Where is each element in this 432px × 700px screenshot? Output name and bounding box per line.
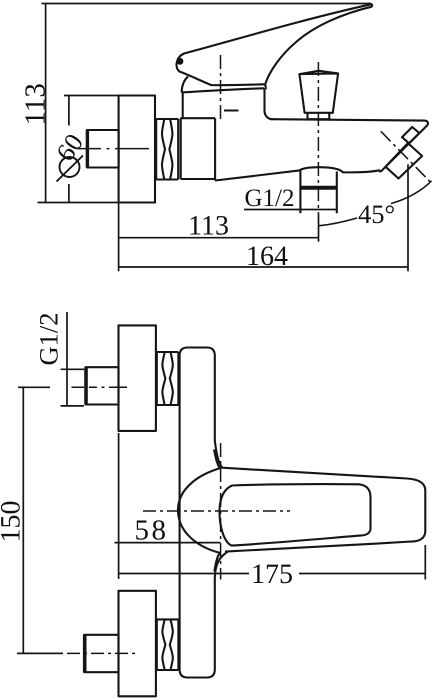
dimension line 58 [115, 542, 221, 544]
extension line: fitting centerline down [318, 213, 320, 241]
spout bottom edge [215, 167, 380, 180]
handle pivot dot [177, 58, 184, 65]
extension line: wall plane down (top view) [118, 203, 120, 272]
fillet: bar to blade top [215, 441, 222, 468]
centerline nipple1 (dash-dot) [72, 386, 128, 388]
crosshair horizontal (blade center, dash-dot) [143, 510, 290, 512]
wall nipple (top view) [87, 130, 119, 168]
wall flange 2 (bottom view) [119, 591, 156, 697]
handle blade outer outline (bottom view) [220, 468, 425, 552]
svg-text:60: 60 [50, 129, 89, 167]
dimension text Ø60 (rotated diagonal) [57, 156, 84, 182]
svg-text:G1/2: G1/2 [34, 313, 64, 366]
centerline nipple (top view) [77, 148, 149, 150]
dimension line 164 [119, 266, 408, 268]
extension tick: 150 top (nipple1 centerline) [18, 386, 50, 388]
wall flange 1 (bottom view) [119, 325, 156, 431]
handle skirt left curve [182, 77, 188, 93]
aerator collar (rotated) [402, 127, 419, 143]
svg-text:113: 113 [188, 211, 229, 242]
extension line: wall plane (bottom view) [118, 433, 120, 579]
dimension line 175 [119, 573, 426, 575]
wall nipple 2 (bottom view) [84, 635, 118, 672]
wall flange Ø60 escutcheon (top view) [119, 96, 155, 203]
hex nut 2 (bottom view) [157, 619, 179, 670]
extension line: flange bottom leftward [38, 202, 157, 204]
centerline nipple2 (dash-dot) [17, 652, 63, 654]
45 degree arc leader right segment [391, 181, 432, 204]
dimension text 175 (white background) [249, 563, 299, 585]
diverter knob (top view) [299, 71, 338, 113]
spout top edge [271, 119, 428, 125]
dimension line 113 vertical (left) [45, 4, 47, 203]
extension line: blade right end down [424, 545, 426, 580]
wall nipple 1 (bottom view) [86, 367, 119, 404]
knob / outlet centerline (vertical dash-dot) [317, 62, 319, 213]
crosshair vertical (valve axis, dash-dot) [220, 443, 222, 580]
svg-text:113: 113 [19, 83, 51, 125]
valve axis centerline (top view) [220, 55, 222, 119]
shower outlet fitting G1/2 (below spout) [300, 170, 336, 214]
45 degree arc leader left segment [319, 218, 358, 226]
diverter knob stem [308, 113, 330, 119]
valve axis short horizontal mark [224, 110, 239, 112]
aerator body (rotated rect) [386, 143, 423, 178]
extension tick: nipple1 top [61, 368, 84, 370]
valve body right edge + curve to spout [265, 88, 273, 119]
dimension line 113 horizontal [119, 237, 319, 239]
hex nut 1 (bottom view) [157, 352, 179, 405]
svg-text:45°: 45° [358, 199, 395, 229]
fillet: blade bottom to bar [215, 552, 228, 579]
body bar (bottom view, rounded rect with interrupted right edge) [180, 348, 215, 678]
handle blade inner face (bottom view) [219, 484, 370, 545]
aerator centerline 45° (dash-dot) [381, 131, 432, 183]
dimension line G1/2 vertical [66, 312, 68, 406]
valve body left edge [182, 93, 184, 119]
handle lever (top view, closed outline) [177, 4, 373, 88]
spout 45° cut edge [379, 125, 427, 172]
handle knob bulge (bottom view) [178, 450, 220, 572]
svg-text:G1/2: G1/2 [245, 185, 295, 212]
dimension line 150 vertical [22, 387, 24, 653]
svg-text:58: 58 [135, 515, 169, 547]
extension line: handle top to dim 113 vertical [42, 3, 372, 5]
svg-text:175: 175 [251, 559, 293, 590]
svg-text:150: 150 [0, 501, 27, 543]
body top edge under handle [182, 88, 264, 92]
extension tick: nipple1 bottom [61, 405, 84, 407]
extension line: aerator down [407, 164, 409, 271]
dimension line Ø60 vertical [68, 96, 70, 203]
wall connection block (top view) [180, 118, 215, 180]
extension line: flange top leftward [64, 95, 121, 97]
hex nut (top view) [156, 119, 178, 180]
svg-text:164: 164 [246, 241, 288, 272]
